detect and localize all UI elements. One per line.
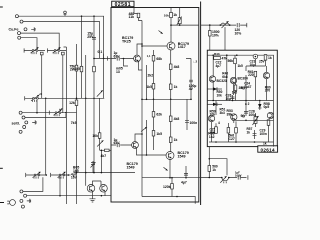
- mid rail: [142, 98, 191, 100]
- wire S2a down to S3a: [45, 98, 47, 175]
- transistor TA BC323: [212, 58, 214, 101]
- plug P7: [32, 120, 36, 124]
- svg-text:∟2: ∟2: [193, 60, 198, 64]
- resistor R25: [171, 178, 173, 197]
- svg-text:C27: C27: [229, 137, 235, 141]
- input terminal J1: [15, 15, 18, 18]
- T4 emitter down: [169, 159, 171, 178]
- input terminal J4: [18, 36, 21, 39]
- switch bank S1b: [47, 48, 66, 52]
- svg-text:10%: 10%: [235, 31, 242, 35]
- svg-text:25V: 25V: [87, 35, 94, 39]
- T1 collector wire: [137, 44, 142, 55]
- T3 emitter: [137, 148, 147, 155]
- svg-text:62k: 62k: [156, 113, 162, 117]
- svg-text:25V: 25V: [259, 60, 266, 64]
- resistor R10: [169, 64, 172, 70]
- svg-text:4µ7: 4µ7: [216, 64, 222, 68]
- cap C29: [254, 130, 256, 139]
- svg-text:+2: +2: [59, 107, 63, 111]
- trimmer P2: [255, 113, 257, 127]
- inner top rail: [207, 55, 273, 146]
- svg-text:1549: 1549: [178, 154, 186, 158]
- svg-text:270: 270: [265, 89, 271, 93]
- svg-text:63V: 63V: [114, 141, 121, 145]
- resistor R7 4k7: [105, 149, 110, 151]
- svg-text:10k: 10k: [217, 93, 223, 97]
- cap C28: [245, 101, 247, 117]
- input cap C2 upper: [111, 58, 133, 60]
- wires upper right: [234, 64, 267, 101]
- svg-text:4V: 4V: [189, 87, 194, 91]
- trimmer D1: [91, 161, 95, 173]
- adjustment arrow to T2: [159, 31, 163, 34]
- svg-text:1549: 1549: [127, 166, 135, 170]
- wire J4a: [21, 33, 60, 49]
- capacitor C1 15u: [92, 38, 96, 40]
- svg-text:1k: 1k: [174, 138, 178, 142]
- svg-text:11k: 11k: [129, 15, 135, 19]
- svg-text:0µ47: 0µ47: [244, 85, 251, 89]
- bottom rail: [142, 197, 195, 204]
- wire S1a down to S2a: [41, 55, 43, 98]
- svg-text:68k: 68k: [156, 57, 162, 61]
- terminal bar: [247, 175, 249, 179]
- transistor TD: [231, 114, 237, 120]
- input terminal J11: [24, 194, 27, 197]
- transistor Q6: [100, 185, 108, 193]
- resistor R55 1k2: [215, 127, 218, 134]
- wire J6: [25, 114, 66, 118]
- svg-text:1k: 1k: [268, 56, 272, 60]
- transistor TF: [263, 72, 269, 78]
- resistor R63: [208, 166, 211, 172]
- lower rail: [232, 119, 274, 121]
- transistor TA: [209, 76, 215, 82]
- resistor R61 220: [254, 71, 257, 77]
- wire R8 to main rail: [139, 18, 143, 21]
- resistor R3: [80, 66, 83, 72]
- input terminal J8: [23, 126, 26, 129]
- plug P3: [31, 27, 35, 31]
- svg-text:1k5: 1k5: [156, 132, 162, 136]
- svg-text:BC304: BC304: [238, 77, 248, 81]
- resistor R4: [93, 66, 96, 72]
- svg-text:100n: 100n: [260, 132, 267, 136]
- svg-text:220: 220: [248, 73, 254, 77]
- label box 02581: [112, 1, 134, 7]
- svg-text:63V: 63V: [114, 55, 121, 59]
- svg-text:10k: 10k: [92, 134, 98, 138]
- transistor T1 BC179: [134, 55, 141, 62]
- trimmer P1 top: [179, 8, 181, 26]
- cap C26: [232, 95, 234, 101]
- T3 collector: [135, 134, 142, 142]
- wire J2: [23, 22, 100, 59]
- diode D3: [207, 103, 222, 105]
- frame tick left edge: [0, 167, 3, 169]
- svg-text:1k5: 1k5: [73, 169, 79, 173]
- DIN connector K1: [10, 200, 16, 206]
- lower out rail: [142, 177, 201, 179]
- resistor R48: [264, 55, 267, 61]
- svg-text:100V: 100V: [235, 174, 242, 178]
- capacitor C31: [238, 175, 240, 179]
- switch bank S3a: [26, 173, 47, 177]
- wire from board bottom: [208, 147, 210, 178]
- svg-text:47k: 47k: [222, 56, 228, 60]
- wires lower: [212, 101, 269, 143]
- wire J5 to S2b: [22, 100, 49, 113]
- label box 02614: [258, 146, 278, 152]
- top feed from edge: [134, 8, 137, 14]
- output board outline 02614: [207, 50, 277, 146]
- input cap C5 lower: [111, 144, 132, 146]
- resistor R59: [267, 120, 270, 126]
- switch bank S2a: [25, 96, 105, 100]
- svg-text:0µ5: 0µ5: [264, 105, 270, 109]
- svg-text:1,1: 1,1: [147, 54, 151, 58]
- svg-text:0,1: 0,1: [98, 50, 103, 54]
- ground: [90, 199, 96, 202]
- cap C6: [185, 166, 187, 178]
- resistor R6 10k: [98, 133, 101, 139]
- svg-text:1k: 1k: [247, 130, 251, 134]
- electrolytic E2: [253, 54, 258, 59]
- wire J4: [21, 38, 37, 49]
- supply line V1: [64, 47, 67, 204]
- svg-text:13: 13: [116, 70, 120, 74]
- feed line to output stage: [85, 55, 87, 173]
- svg-text:10%: 10%: [212, 34, 219, 38]
- board right edge second line: [200, 2, 202, 206]
- svg-text:1k5: 1k5: [74, 67, 80, 71]
- wire J10 up to S3a: [23, 177, 43, 191]
- monitor head symbol: [222, 178, 229, 181]
- svg-text:7k5: 7k5: [71, 121, 77, 125]
- resistor R57: [235, 128, 238, 134]
- svg-text:10k: 10k: [164, 13, 169, 17]
- T2 emitter chain: [170, 50, 172, 100]
- resistor R30 1500: [209, 31, 212, 37]
- resistor R52 39k: [234, 85, 237, 91]
- svg-text:4µ7: 4µ7: [181, 181, 187, 185]
- svg-text:TK25: TK25: [122, 40, 131, 44]
- T2 base wire: [142, 45, 167, 47]
- input terminal J12: [20, 199, 23, 202]
- supply line V2: [76, 44, 78, 204]
- T1 emitter wire: [139, 62, 143, 71]
- wiper arrow block: [141, 127, 147, 132]
- input terminal J13: [21, 205, 24, 208]
- link wire over to head: [209, 159, 227, 176]
- svg-text:39k: 39k: [227, 112, 233, 116]
- svg-text:02614: 02614: [261, 148, 275, 153]
- wiper arrow 2: [97, 140, 103, 146]
- main vertical rail x142: [141, 21, 143, 197]
- pickup line: [94, 57, 110, 59]
- svg-text:120k: 120k: [163, 185, 171, 189]
- base return x123.5: [124, 59, 129, 67]
- svg-text:3k3: 3k3: [220, 111, 226, 115]
- plug P12: [27, 199, 31, 203]
- svg-text:1k5: 1k5: [146, 85, 152, 89]
- wire S1b down to S2b: [62, 55, 64, 113]
- input terminal J5: [19, 111, 22, 114]
- svg-text:BC323: BC323: [217, 79, 227, 83]
- transistor T4 BC179: [166, 152, 174, 160]
- monitor rail from board: [201, 177, 247, 179]
- svg-text:56k: 56k: [228, 59, 234, 63]
- wiper arrow 1: [97, 90, 103, 96]
- wire J1: [18, 16, 103, 98]
- T2 collector with resistor: [170, 8, 172, 43]
- svg-text:4: 4: [218, 121, 220, 125]
- transistor TB: [230, 77, 236, 83]
- input terminal J2: [20, 20, 23, 23]
- svg-text:02581: 02581: [115, 2, 131, 8]
- svg-text:100n: 100n: [190, 121, 198, 125]
- svg-text:2k2: 2k2: [148, 74, 154, 78]
- connector blob above wire J1: [64, 11, 67, 14]
- wire J11 bottom rail: [27, 195, 111, 197]
- bias line x146.5: [146, 65, 148, 99]
- rail bottom stage: [74, 172, 136, 174]
- switch bank S2b: [49, 111, 76, 115]
- svg-text:4k8: 4k8: [174, 117, 180, 121]
- svg-text:1417: 1417: [178, 45, 186, 49]
- input terminal J7: [25, 121, 28, 124]
- Q6 emitter: [104, 191, 106, 196]
- head drop: [224, 27, 226, 50]
- lower chain x170.7: [170, 99, 172, 151]
- T2 collector tap to head line: [171, 24, 199, 26]
- svg-text:Cu.Fe: Cu.Fe: [9, 28, 19, 32]
- Q5 collector wire: [86, 173, 101, 186]
- svg-text:seitl.: seitl.: [12, 121, 20, 125]
- svg-text:+0: +0: [39, 92, 43, 96]
- input terminal J6: [22, 116, 25, 119]
- frame tick top-left: [0, 6, 3, 8]
- input terminal J9: [19, 130, 22, 133]
- top rail wires: [213, 55, 265, 101]
- decoupling cap C3: [186, 59, 191, 100]
- input terminal J10: [20, 190, 23, 193]
- drop to board: [209, 25, 211, 50]
- mid power rail: [207, 100, 273, 102]
- svg-text:10µ: 10µ: [250, 63, 256, 67]
- transistor Q5: [87, 185, 95, 193]
- head terminal: [246, 23, 248, 27]
- Q5 emitter to ground: [92, 191, 94, 199]
- resistor R43 47k: [214, 57, 221, 60]
- resistor R8: [137, 13, 140, 18]
- switch bank S3b: [51, 173, 71, 177]
- lower cap C4: [186, 99, 188, 130]
- transistor TE: [267, 112, 273, 118]
- svg-text:R43: R43: [214, 52, 220, 56]
- record head L1: [221, 23, 229, 25]
- lower resistor chain x153.5: [153, 99, 155, 150]
- resistor R1 75k: [75, 65, 78, 71]
- svg-text:1k5: 1k5: [232, 91, 238, 95]
- T4 base wire: [147, 154, 167, 156]
- input terminal J3: [24, 28, 27, 31]
- svg-text:1k: 1k: [173, 13, 177, 17]
- svg-text:6k8: 6k8: [222, 75, 228, 79]
- divider line at 81.5: [81, 16, 83, 98]
- diode D2: [207, 88, 222, 90]
- capacitor C30: [237, 23, 239, 27]
- svg-text:100µ: 100µ: [249, 113, 257, 117]
- diode D4 vertical: [259, 101, 261, 111]
- transistor TC: [208, 115, 214, 121]
- transistor T3 BC179: [132, 142, 139, 149]
- lower divider line 99.6: [99, 98, 101, 150]
- resistor R2 12k: [76, 98, 78, 100]
- bottom rail: [209, 141, 274, 143]
- head line wire: [201, 24, 247, 26]
- wire into block lower channel: [100, 149, 111, 151]
- bias x146.5 lower: [146, 120, 148, 155]
- transistor T2 BC179: [167, 42, 175, 50]
- resistor R11: [169, 84, 172, 90]
- svg-text:1k5: 1k5: [238, 64, 244, 68]
- preamp board outline 02581: [111, 8, 199, 203]
- svg-text:1k: 1k: [212, 168, 216, 172]
- riser to output rail: [100, 150, 102, 172]
- svg-text:10k: 10k: [210, 113, 216, 117]
- svg-text:12k: 12k: [69, 101, 75, 105]
- divider line 94: [93, 16, 95, 172]
- resistor R49 56k: [234, 58, 237, 64]
- svg-text:1k: 1k: [174, 85, 178, 89]
- resistor R56: [227, 128, 230, 134]
- svg-text:4k7: 4k7: [101, 154, 107, 158]
- input terminal J4a: [18, 32, 21, 35]
- switch bank S1a: [24, 48, 45, 52]
- svg-text:4k8: 4k8: [174, 65, 180, 69]
- adjustment arrow to T4: [164, 167, 168, 170]
- riser S3b to J11 rail: [59, 177, 61, 196]
- feedback resistor R9 68k: [153, 50, 155, 99]
